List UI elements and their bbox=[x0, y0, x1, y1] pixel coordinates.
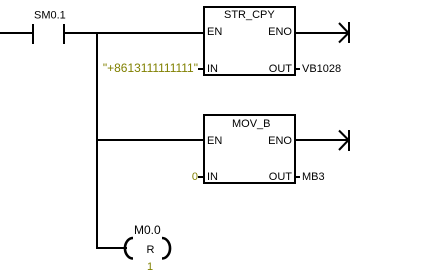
wire rung 2 bbox=[98, 139, 203, 141]
svg-text:"+8613111111111": "+8613111111111" bbox=[103, 61, 198, 75]
svg-text:ENO: ENO bbox=[268, 26, 292, 38]
svg-text:IN: IN bbox=[207, 171, 218, 183]
svg-text:OUT: OUT bbox=[269, 171, 293, 183]
operand MB3 at U2 OUT bbox=[295, 171, 325, 183]
operand phone string at U1 IN bbox=[103, 61, 203, 75]
svg-text:MB3: MB3 bbox=[302, 171, 325, 183]
wire ENO U1 to arrow bbox=[295, 32, 348, 34]
svg-text:OUT: OUT bbox=[269, 63, 293, 75]
operand VB1028 at U1 OUT bbox=[295, 63, 341, 75]
node junction bbox=[96, 32, 98, 34]
svg-text:ENO: ENO bbox=[268, 135, 292, 147]
arrow open line 1 bbox=[339, 22, 350, 43]
arrow open line 2 bbox=[339, 130, 350, 151]
coil R M0.0 bbox=[125, 223, 170, 273]
svg-text:VB1028: VB1028 bbox=[302, 63, 341, 75]
svg-text:0: 0 bbox=[192, 171, 198, 183]
svg-text:1: 1 bbox=[147, 261, 153, 273]
svg-text:SM0.1: SM0.1 bbox=[34, 10, 66, 22]
wire bbox=[65, 32, 203, 34]
wire bbox=[0, 32, 32, 34]
svg-text:M0.0: M0.0 bbox=[134, 223, 161, 237]
contact SM0.1 bbox=[32, 10, 66, 45]
svg-text:R: R bbox=[147, 244, 155, 256]
wire vertical rail bbox=[96, 34, 98, 249]
wire ENO U2 to arrow bbox=[295, 139, 348, 141]
svg-text:MOV_B: MOV_B bbox=[232, 118, 271, 130]
svg-text:EN: EN bbox=[207, 26, 222, 38]
svg-text:IN: IN bbox=[207, 63, 218, 75]
svg-text:EN: EN bbox=[207, 135, 222, 147]
box U1 STR_CPY bbox=[204, 7, 295, 75]
wire bottom branch bbox=[96, 247, 127, 249]
svg-text:STR_CPY: STR_CPY bbox=[224, 9, 275, 21]
operand 0 at U2 IN bbox=[192, 171, 203, 183]
box U2 MOV_B bbox=[204, 115, 295, 183]
